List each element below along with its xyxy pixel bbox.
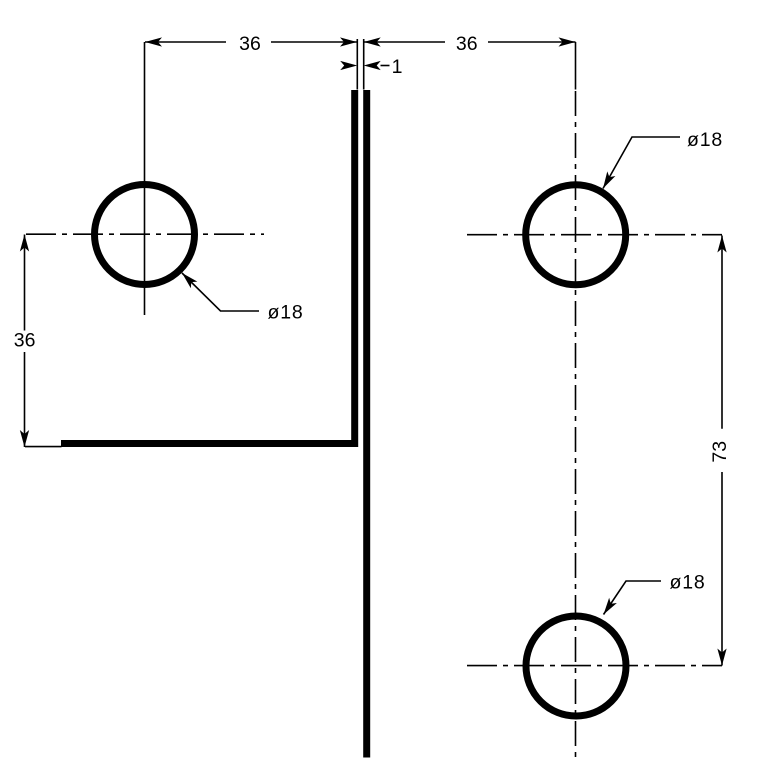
leader line, top right d18	[603, 137, 680, 189]
dimension line 36 left vertical	[24, 235, 26, 448]
dimension line 36 top right	[364, 41, 576, 43]
extension line, bottom of left view	[25, 446, 62, 448]
svg-text:36: 36	[456, 33, 478, 55]
arrow 36TL left	[145, 37, 162, 46]
svg-text:36: 36	[239, 33, 261, 55]
centerline horizontal, top right circle	[467, 234, 722, 236]
svg-text:1: 1	[392, 56, 403, 78]
extension line, plate left face	[356, 39, 358, 90]
arrow 1 left	[340, 61, 357, 70]
right plate: flat leaf (side view, thick)	[363, 90, 370, 758]
centerline horizontal, bottom right circle	[467, 665, 722, 667]
arrow 36TR left	[364, 37, 381, 46]
leader line, left d18	[182, 273, 259, 311]
arrow leader bottom right d18	[600, 598, 617, 617]
svg-text:36: 36	[14, 330, 36, 352]
arrow leader top right d18	[599, 171, 615, 190]
arrow 1 right	[364, 61, 381, 70]
arrow 73 top	[717, 236, 726, 253]
arrow 36TL right	[340, 37, 357, 46]
svg-text:ø18: ø18	[687, 129, 723, 151]
svg-text:73: 73	[709, 441, 731, 463]
arrow 36L top	[20, 235, 29, 252]
svg-text:ø18: ø18	[268, 302, 304, 324]
arrow leader left d18	[179, 270, 198, 289]
hole top right, d18 circle	[526, 185, 626, 285]
extension line, plate right face	[363, 39, 365, 90]
hole bottom right, d18 circle	[526, 616, 626, 716]
extension line vertical through left circle	[144, 42, 146, 315]
centerline horizontal, left circle	[26, 233, 264, 235]
hole left view, d18 circle	[95, 185, 195, 285]
centerline vertical, right view	[575, 91, 577, 757]
leader line, bottom right d18	[604, 581, 662, 615]
arrow 36TR right	[559, 37, 576, 46]
dimension line 73 right vertical	[721, 236, 723, 666]
svg-text:ø18: ø18	[670, 572, 706, 594]
left plate: L-angle leaf (side view, thick)	[61, 90, 355, 444]
arrow 36L bottom	[20, 430, 29, 447]
arrow 73 bottom	[717, 649, 726, 666]
extension line vertical solid, right view top	[575, 42, 577, 90]
dimension line 1 tail	[381, 65, 390, 67]
dimension line 36 top left	[145, 41, 357, 43]
